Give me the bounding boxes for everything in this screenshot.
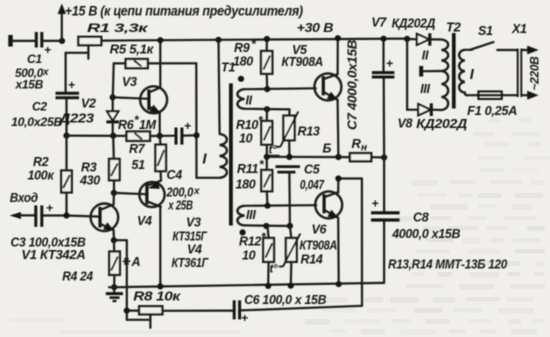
svg-text:R5 5,1к: R5 5,1к (110, 43, 155, 57)
resistor R3 (79, 136, 120, 193)
svg-text:R14: R14 (301, 253, 323, 267)
node R12 on bus (265, 283, 271, 289)
main +30V rail wire (101, 39, 407, 41)
svg-text:0,047: 0,047 (300, 178, 325, 192)
svg-text:~220В: ~220В (528, 56, 542, 91)
node V6 emitter on bus (336, 281, 342, 287)
svg-text:10: 10 (242, 249, 256, 263)
T1 phase dot upper (238, 76, 244, 82)
capacitor C1 (15, 32, 63, 92)
node B line wire (264, 154, 384, 160)
svg-text:х: х (193, 186, 200, 197)
node V3 emitter / R6 / R7 (157, 133, 163, 139)
svg-text:С3 100,0х15В: С3 100,0х15В (11, 236, 86, 250)
node R14 on bus (288, 283, 294, 289)
transformer T2 winding I (459, 50, 475, 95)
svg-text:S1: S1 (478, 24, 493, 38)
resistor R1 (78, 37, 101, 59)
svg-text:V3: V3 (122, 75, 137, 89)
svg-text:н: н (361, 143, 367, 154)
svg-text:R12: R12 (239, 235, 261, 249)
svg-text:+: + (44, 43, 51, 57)
svg-text:200,0: 200,0 (166, 185, 194, 199)
input arrow and label (10, 190, 39, 219)
resistor R11 (261, 157, 272, 206)
svg-text:+: + (46, 201, 53, 215)
transformer T1 core (229, 83, 233, 225)
svg-text:t°: t° (270, 264, 279, 276)
common 0V bus wire (109, 283, 384, 287)
node C3 / R2 / V1 base (63, 212, 69, 218)
svg-text:V2: V2 (81, 97, 96, 111)
svg-text:+: + (184, 119, 191, 133)
svg-text:10,0х25В: 10,0х25В (11, 115, 63, 129)
svg-text:С4: С4 (167, 168, 183, 182)
node V1 emitter (111, 237, 117, 243)
svg-text:С6 100,0 х 15В: С6 100,0 х 15В (244, 293, 326, 307)
node V3 collector on rail (157, 37, 163, 43)
svg-text:R3: R3 (81, 161, 97, 175)
resistor R12 (263, 226, 274, 286)
svg-text:t°: t° (269, 145, 278, 157)
node C2/R2/V2 rail (63, 133, 69, 139)
svg-text:Б: Б (323, 142, 332, 156)
svg-text:+: + (241, 311, 248, 325)
svg-text:С2: С2 (32, 100, 47, 114)
svg-text:х 25В: х 25В (167, 199, 192, 213)
svg-text:V6: V6 (312, 223, 328, 237)
svg-text:х: х (42, 67, 49, 78)
svg-text:R6: R6 (118, 118, 135, 132)
svg-text:КТ315Г: КТ315Г (173, 230, 208, 244)
svg-text:R10: R10 (236, 118, 258, 132)
svg-text:+15 В (к цепи питания предусил: +15 В (к цепи питания предусилителя) (65, 4, 304, 19)
svg-text:R8 10к: R8 10к (133, 290, 181, 304)
transformer T1 winding III (237, 205, 316, 226)
svg-text:R2: R2 (33, 155, 49, 169)
svg-text:III: III (246, 208, 256, 222)
svg-text:R9: R9 (234, 41, 250, 55)
mains arrows 220V (522, 46, 539, 100)
svg-text:КД202Д: КД202Д (392, 17, 436, 31)
svg-text:А: А (131, 255, 141, 269)
svg-text:С8: С8 (413, 211, 429, 225)
wire C7/C8 column (380, 36, 386, 283)
thermistor R14 (279, 226, 323, 286)
node winding III bottom line / R12 (263, 223, 269, 229)
svg-text:Вход: Вход (10, 190, 38, 205)
svg-text:II: II (246, 93, 253, 107)
T2 center tap terminal (421, 66, 441, 77)
ground symbol (106, 284, 123, 301)
capacitor C6 (234, 293, 326, 325)
transistor V3 (113, 40, 167, 135)
transistor V4 (114, 171, 165, 286)
resistor R6 (127, 132, 151, 141)
capacitor C8 (371, 197, 460, 241)
svg-text:V1 КТ342А: V1 КТ342А (21, 248, 85, 262)
transistor V1 (21, 193, 118, 262)
wire bootstrap C4-right down to T1 winding I bottom (193, 63, 220, 178)
+15V arrow and node (58, 4, 66, 45)
svg-text:+: + (386, 57, 393, 71)
node V2 cathode / R3 / R6 (110, 133, 116, 139)
resistor R10 (261, 109, 272, 157)
wire V7/V8 anode link (406, 39, 408, 110)
wire R1 tap to C2 (66, 53, 89, 92)
svg-text:F1 0,25А: F1 0,25А (467, 104, 517, 118)
svg-text:R13: R13 (298, 125, 320, 139)
T1 phase dot lower (240, 229, 246, 235)
resistor R4 (62, 240, 140, 287)
svg-text:V4: V4 (137, 214, 152, 228)
capacitor C3 (11, 201, 86, 250)
node Rn right / C7 C8 midpoint (381, 154, 387, 160)
svg-text:V3: V3 (186, 216, 201, 230)
svg-text:10: 10 (239, 132, 253, 146)
label Rn load (352, 136, 368, 154)
transformer T2 core (452, 33, 456, 109)
resistor R5 (113, 59, 197, 97)
capacitor C2 (11, 78, 79, 136)
label transistor types V3 V4 (172, 216, 210, 271)
svg-text:180: 180 (233, 55, 253, 69)
fuse F1 (467, 91, 518, 117)
svg-text:+: + (68, 78, 75, 92)
node V6 collector / wire to C6 (335, 175, 341, 181)
svg-text:+30 В: +30 В (297, 20, 334, 35)
node R11 bottom / V6 base line (264, 203, 270, 209)
svg-text:V8: V8 (398, 117, 413, 131)
svg-text:С5: С5 (304, 163, 321, 177)
capacitor C7 (372, 57, 395, 78)
transformer T2 windings II and III (420, 40, 448, 111)
svg-text:430: 430 (79, 174, 100, 188)
wire C6 right to node Б (241, 179, 362, 311)
svg-text:КТ908А: КТ908А (300, 239, 338, 253)
input terminal top-left (11, 35, 36, 47)
svg-text:R: R (352, 136, 362, 151)
svg-text:Т2: Т2 (446, 20, 462, 35)
node V4 collector on bus (157, 283, 163, 289)
svg-text:КД202Д: КД202Д (416, 117, 467, 131)
transistor V6 (315, 179, 342, 285)
svg-text:х15В: х15В (15, 78, 44, 92)
capacitor C4 (166, 119, 200, 213)
svg-text:1М: 1М (139, 118, 157, 132)
resistor Rn (350, 153, 371, 161)
svg-text:R7: R7 (129, 142, 146, 156)
svg-text:III: III (420, 82, 430, 96)
svg-text:51: 51 (132, 158, 146, 172)
resistor R8 (127, 306, 233, 328)
capacitor C5 (276, 163, 325, 226)
svg-text:R11: R11 (237, 162, 258, 176)
svg-text:180: 180 (236, 178, 256, 192)
diode V8 (398, 103, 468, 131)
node V1 collector / R3 / V4 base (111, 190, 117, 196)
svg-text:КТ908А: КТ908А (282, 55, 324, 69)
node winding II lower lead / R10 (264, 106, 270, 112)
node R9 bottom on winding II lead (264, 86, 270, 92)
paper texture ghost bleed (10, 118, 550, 334)
svg-text:100к: 100к (28, 169, 55, 183)
transformer T1 winding I (202, 37, 226, 178)
transistor V5 (314, 35, 341, 157)
svg-text:С1: С1 (27, 52, 42, 66)
svg-text:V7: V7 (371, 16, 387, 30)
svg-text:R4 24: R4 24 (62, 270, 93, 284)
wire stabilized rail y136 (67, 134, 197, 137)
diode V2 (59, 94, 119, 135)
svg-text:R1 3,3к: R1 3,3к (87, 21, 149, 35)
transformer T1 winding II (237, 88, 315, 109)
thermistor R13 (276, 109, 320, 156)
svg-text:+: + (372, 197, 379, 211)
svg-text:V4: V4 (187, 243, 202, 257)
wire V1 emitter to R8 (114, 240, 150, 320)
node rectifier anode junction (404, 36, 410, 42)
svg-text:С7 4000,0х15В: С7 4000,0х15В (346, 40, 360, 130)
svg-text:Х1: Х1 (511, 22, 527, 36)
svg-text:II: II (422, 48, 429, 62)
resistor R7 (155, 136, 166, 171)
diode V7 (407, 33, 441, 45)
svg-text:Д223: Д223 (59, 112, 95, 126)
svg-text:КТ361Г: КТ361Г (172, 256, 210, 270)
t-degree mark upper (268, 145, 280, 157)
switch S1 (470, 24, 518, 50)
resistor R9 (261, 36, 272, 89)
connector X1 (511, 22, 527, 97)
node C5 / R14 top (287, 223, 293, 229)
resistor R2 (28, 136, 72, 216)
